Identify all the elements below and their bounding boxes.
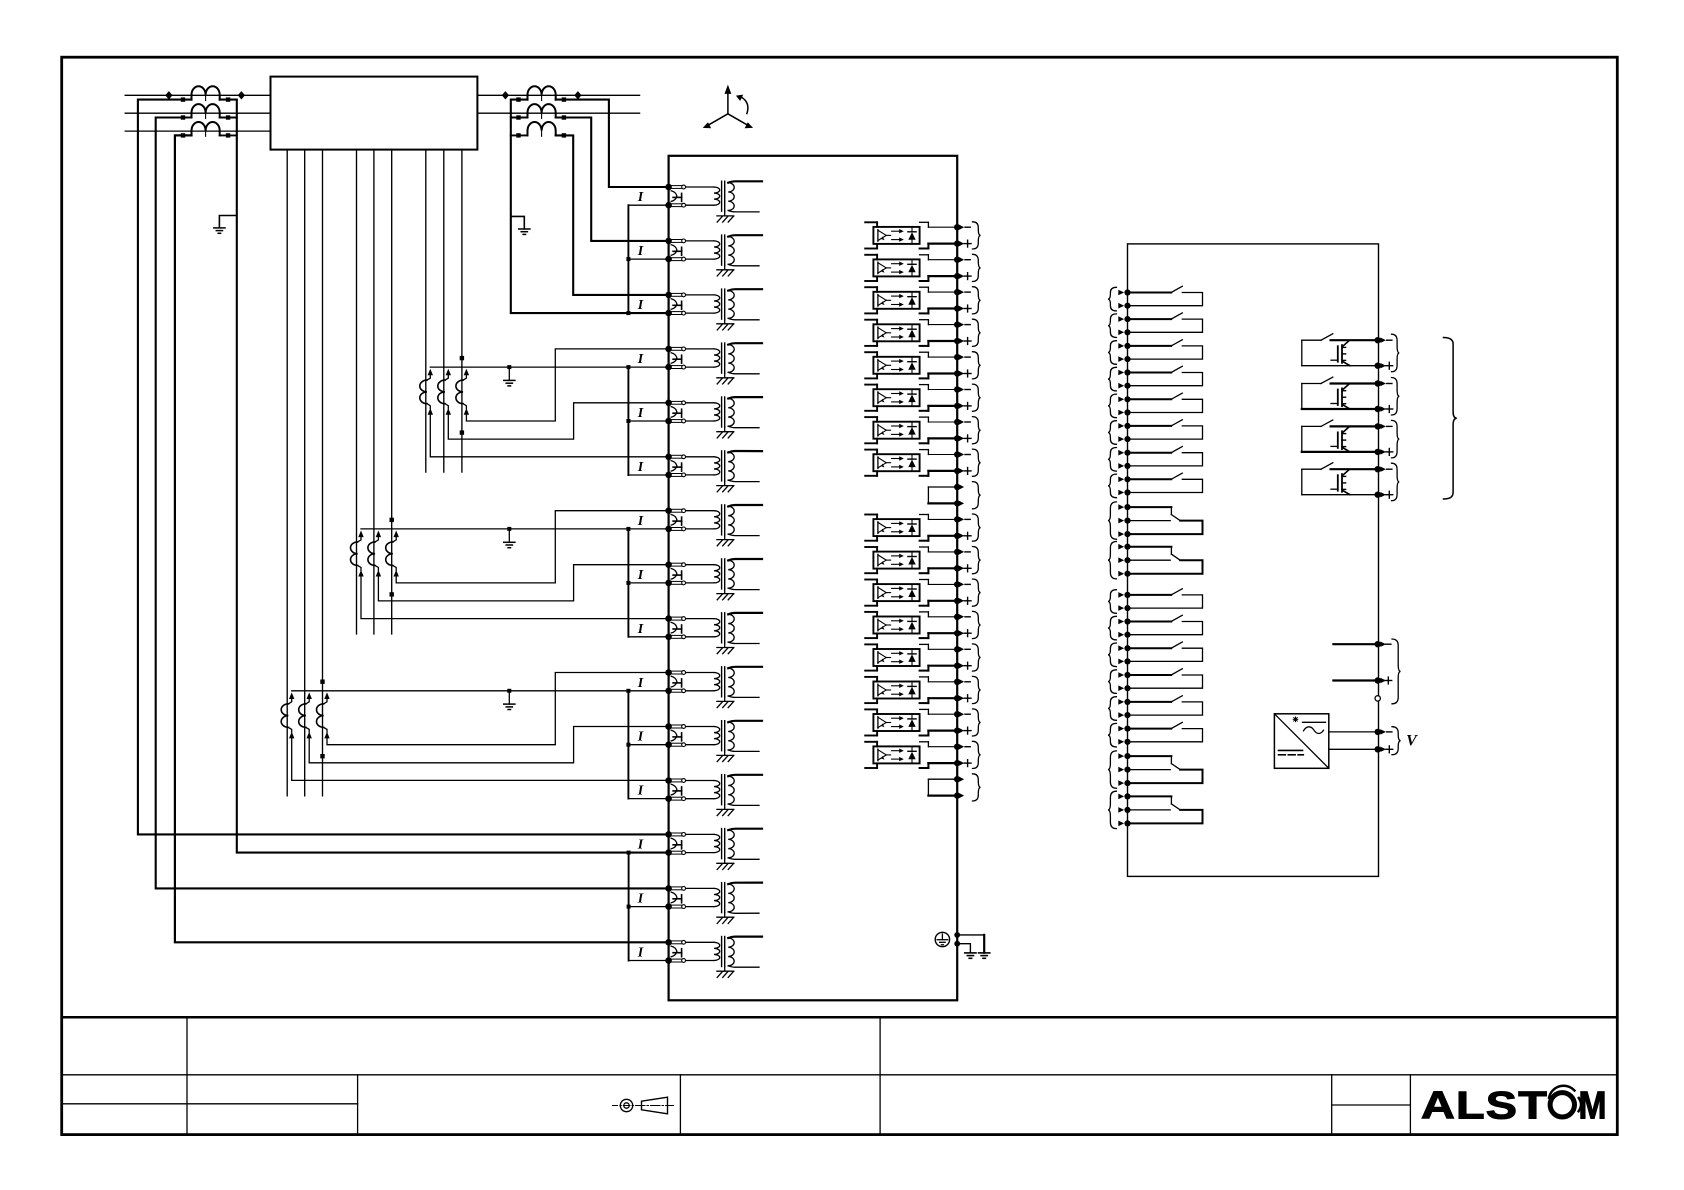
wire: opto 14 negative lead xyxy=(928,648,954,650)
terminal - (opto 14) xyxy=(954,646,960,652)
wire: transformer lead to middle CT set primary 3 xyxy=(391,150,393,634)
label - (opto 10) xyxy=(965,518,970,520)
junction (star link I4) xyxy=(626,365,630,369)
label - (opto 11) xyxy=(965,551,970,553)
wire: opto 5 negative lead xyxy=(928,356,954,358)
input transformer (channel I9) xyxy=(686,618,714,620)
svg-text:I: I xyxy=(637,676,644,691)
terminal + (opto 14) xyxy=(954,663,960,669)
label + (opto 8) xyxy=(964,470,971,472)
terminal - (opto 3) xyxy=(954,289,960,295)
polarity marker (left CT L1, right) xyxy=(238,91,245,99)
junction (I2 bottom link) xyxy=(626,257,630,261)
label + (output 4) xyxy=(1386,494,1393,496)
ground (earth link upper) xyxy=(979,952,990,954)
wire: opto 5 positive lead xyxy=(928,372,954,374)
wire: opto 17 positive lead xyxy=(928,762,954,764)
wire: opto 11 negative lead xyxy=(928,551,954,553)
label - (opto 6) xyxy=(965,389,970,391)
wire: watchdog output negative xyxy=(1333,643,1374,645)
label - (opto 17) xyxy=(965,746,970,748)
svg-text:I: I xyxy=(637,892,644,907)
terminal - (opto 10) xyxy=(954,516,960,522)
wire: opto 6 negative lead xyxy=(928,389,954,391)
current transformer (right group, line L2) xyxy=(528,104,556,117)
wire: opto 7 negative lead xyxy=(928,421,954,423)
current input channel I4 terminals xyxy=(665,346,672,353)
input transformer (channel I2) xyxy=(686,240,714,242)
input transformer (channel I11) xyxy=(686,726,714,728)
terminal + (opto 13) xyxy=(954,630,960,636)
optocoupler input 12 xyxy=(865,579,877,581)
label + (opto 17) xyxy=(964,762,971,764)
wire: transformer lead to middle CT set primary 1 xyxy=(356,150,358,634)
junction (I8 bottom link) xyxy=(626,581,630,585)
label - (opto 12) xyxy=(965,583,970,585)
terminal pair brace (opto 4) xyxy=(973,319,981,346)
junction (I11 bottom link) xyxy=(626,743,630,747)
ground (CT set I10-I12 star point) xyxy=(508,691,510,704)
wire: opto 1 positive lead xyxy=(928,243,954,245)
wire: CT phase 1 secondary to channel I12 top xyxy=(292,737,669,781)
terminal - (opto 8) xyxy=(954,451,960,457)
first angle projection symbol xyxy=(620,1099,632,1111)
terminal - (opto 11) xyxy=(954,549,960,555)
wire: CT phase 1 secondary to channel I9 top xyxy=(361,575,669,619)
wire: right CT L2 secondary phase lead down to channel I2 xyxy=(556,118,669,241)
ground (channel I12 transformer screen) xyxy=(724,805,726,810)
optocoupler input 10 xyxy=(865,514,877,516)
wire: opto 12 positive lead xyxy=(928,600,954,602)
relay output contact 3 terminals xyxy=(1124,343,1130,349)
input transformer (channel I10) xyxy=(686,672,714,674)
input transformer (channel I8) xyxy=(686,564,714,566)
terminal - (opto 2) xyxy=(954,257,960,263)
terminal pair brace (output 1) xyxy=(1392,334,1400,372)
terminal pair brace (opto 9) xyxy=(973,482,981,509)
transistor Q4 (IGBT) xyxy=(1337,475,1339,491)
svg-text:I: I xyxy=(637,460,644,475)
input transformer (channel I12) xyxy=(686,780,714,782)
terminal pair brace (contact 7) xyxy=(1108,448,1116,472)
input transformer (channel I3) xyxy=(686,294,714,296)
wire: opto 16 negative lead xyxy=(928,713,954,715)
optocoupler input 17 xyxy=(865,741,877,743)
junction (earth link lower) xyxy=(954,941,960,947)
relay contact 7 (normally open) xyxy=(1131,452,1171,454)
title block revision cell line xyxy=(1332,1104,1411,1106)
svg-text:M: M xyxy=(1579,1085,1607,1128)
phase line L1 (right busbar section) xyxy=(477,94,639,96)
high speed output 3 (contact + IGBT) xyxy=(1301,426,1303,452)
terminal pair brace (contact 13) xyxy=(1108,643,1116,667)
terminal + (opto 12) xyxy=(954,598,960,604)
relay output contact 5 terminals xyxy=(1124,396,1130,402)
relay output contact 10 terminals (changeover) xyxy=(1124,544,1130,550)
wire: opto 4 negative lead xyxy=(928,324,954,326)
label - (opto 14) xyxy=(965,648,970,650)
optocoupler input 3 xyxy=(865,286,877,288)
current input channel I8 terminals xyxy=(665,561,672,568)
junction (earth link upper) xyxy=(954,932,960,938)
ground (channel I10 transformer screen) xyxy=(724,697,726,701)
ground (earth link lower) xyxy=(965,952,976,954)
wire: CT phase 1 secondary to channel I6 top xyxy=(430,413,668,457)
terminal pair brace (opto 11) xyxy=(973,547,981,574)
wire: right CT L2 secondary to star vertical xyxy=(511,117,528,119)
wire: opto 12 negative lead xyxy=(928,583,954,585)
label + (output 1) xyxy=(1386,365,1393,367)
terminal pair brace (opto 5) xyxy=(973,352,981,379)
title block verticals xyxy=(186,1017,188,1134)
terminal + (opto 7) xyxy=(954,435,960,441)
terminal pair brace (contact 16) xyxy=(1108,723,1116,747)
wire: right CT L3 secondary phase lead down to channel I3 xyxy=(556,135,669,295)
optocoupler input 4 xyxy=(865,319,877,321)
wire: CT phase 3 secondary to channel I4 top xyxy=(466,349,668,421)
wire: transformer lead to lower CT set primary 2 xyxy=(304,150,306,796)
current transformer (left group, line L3) xyxy=(192,122,220,135)
title block row separator xyxy=(62,1074,1618,1076)
terminal + (opto 2) xyxy=(954,273,960,279)
terminal pair brace (opto 14) xyxy=(973,644,981,671)
terminal pair brace (output 2) xyxy=(1392,378,1400,416)
input transformer (channel I1) xyxy=(686,186,714,188)
wire: link channel I1/I2/I3 bottom terminals xyxy=(628,204,668,206)
wire: opto 10 negative lead xyxy=(928,518,954,520)
terminal pair brace (opto 7) xyxy=(973,417,981,444)
ground (channel I15 transformer screen) xyxy=(724,967,726,972)
terminal - (watchdog) xyxy=(1375,641,1381,647)
terminal + (output 2) xyxy=(1375,406,1381,412)
current input channel I10 terminals xyxy=(665,669,672,676)
ground (channel I1 transformer screen) xyxy=(724,211,726,216)
relay output contact 12 terminals xyxy=(1124,618,1130,624)
title block sub-row line xyxy=(62,1103,358,1105)
input transformer (channel I14) xyxy=(686,887,714,889)
relay output contact 8 terminals xyxy=(1124,476,1130,482)
wire: right CT L1 secondary phase lead down to channel I1 xyxy=(556,100,669,187)
optocoupler input 11 xyxy=(865,546,877,548)
label - (opto 7) xyxy=(965,421,970,423)
label - (opto 13) xyxy=(965,616,970,618)
wire: link to channel I8 bottom xyxy=(628,582,668,584)
svg-text:I: I xyxy=(637,244,644,259)
terminal pair brace (opto 17) xyxy=(973,741,981,768)
junction (I14 bottom link) xyxy=(627,905,631,909)
label + (opto 5) xyxy=(964,373,971,375)
relay output contact 16 terminals xyxy=(1124,726,1130,732)
terminal + (opto 16) xyxy=(954,727,960,733)
terminal + (output 1) xyxy=(1375,363,1381,369)
terminal - (output 4) xyxy=(1375,466,1381,472)
label + (opto 12) xyxy=(964,600,971,602)
optocoupler input 14 xyxy=(865,643,877,645)
wire: star link I7-I9 bottoms xyxy=(627,529,629,637)
wire: link to channel I14 bottom terminal xyxy=(629,906,669,908)
terminal pair brace (opto 2) xyxy=(973,254,981,281)
wire: CT phase 2 secondary to channel I5 top xyxy=(448,403,668,439)
wire: transformer lead to upper CT set primary 1 xyxy=(425,150,427,473)
high speed output 4 (contact + IGBT) xyxy=(1301,469,1303,495)
terminal - (opto 5) xyxy=(954,354,960,360)
input transformer (channel I4) xyxy=(686,348,714,350)
CT secondary winding (set at channels I7-I9, phase 2) xyxy=(376,531,381,538)
current transformer (right group, line L3) xyxy=(528,122,556,135)
current transformer (left group, line L2) xyxy=(192,104,220,117)
terminal - (opto 17) xyxy=(954,744,960,750)
ground (right CT star point) xyxy=(511,216,525,228)
junction (I13 bottom link) xyxy=(627,851,631,855)
optocoupler input 1 xyxy=(865,221,877,223)
terminal pair brace (contact 3) xyxy=(1108,341,1116,365)
current input channel I5 terminals xyxy=(665,400,672,407)
optocoupler input 2 xyxy=(865,254,877,256)
terminal - (opto 15) xyxy=(954,679,960,685)
ground (channel I8 transformer screen) xyxy=(724,589,726,594)
wire: left CT L3 secondary to star vertical xyxy=(220,134,237,136)
relay contact 9 (changeover) xyxy=(1131,506,1172,508)
CT secondary winding (set at channels I10-I12, phase 1) xyxy=(289,692,294,699)
relay output contact 4 terminals xyxy=(1124,369,1130,375)
ground (channel I5 transformer screen) xyxy=(724,427,726,432)
ground (left CT star point) xyxy=(219,216,236,228)
wire: opto 13 positive lead xyxy=(928,632,954,634)
terminal pair brace (contact 2) xyxy=(1108,314,1116,338)
polarity marker (right CT L1, right) xyxy=(574,91,581,99)
ground (channel I7 transformer screen) xyxy=(724,535,726,540)
CT secondary winding (set at channels I4-I6, phase 3) xyxy=(464,369,469,376)
relay output contact 2 terminals xyxy=(1124,316,1130,322)
current input channel I9 terminals xyxy=(665,615,672,622)
terminal pair brace (contact 14) xyxy=(1108,670,1116,694)
current input channel I13 terminals xyxy=(665,831,672,838)
terminal + (auxiliary supply) xyxy=(1375,746,1381,752)
brace (auxiliary supply V) xyxy=(1392,727,1401,755)
terminal + (opto 11) xyxy=(954,565,960,571)
relay contact 17 (changeover) xyxy=(1131,755,1172,757)
wire: transformer lead to lower CT set primary 3 xyxy=(322,150,324,796)
polarity marker (left CT L1, left) xyxy=(165,91,172,99)
label - (opto 8) xyxy=(965,454,970,456)
wire: opto 3 negative lead xyxy=(928,291,954,293)
wire: right CT L3 secondary to star vertical xyxy=(511,134,528,136)
relay output contact 14 terminals xyxy=(1124,672,1130,678)
wire: CT phase 2 secondary to channel I8 top xyxy=(378,565,668,601)
wire: opto 8 negative lead xyxy=(928,454,954,456)
ground (CT set I7-I9 star point) xyxy=(508,529,510,542)
label - (output 3) xyxy=(1387,425,1392,427)
terminal - (opto 6) xyxy=(954,386,960,392)
transistor Q1 (IGBT) xyxy=(1337,346,1339,362)
junction (star link I7) xyxy=(626,527,630,531)
terminal brace (contact 10) xyxy=(1108,542,1116,579)
terminal + (opto 8) xyxy=(954,468,960,474)
label + (opto 1) xyxy=(964,243,971,245)
terminal brace (contact 18) xyxy=(1108,791,1116,828)
svg-text:I: I xyxy=(637,946,644,961)
primary polarity marker (I7 set) xyxy=(390,518,394,522)
label - (opto 4) xyxy=(965,324,970,326)
phase line L3 (left busbar section) xyxy=(125,130,270,132)
wire: CT star point common to channel I10 bottom xyxy=(292,690,669,692)
svg-text:ALST: ALST xyxy=(1421,1085,1548,1128)
wire: transformer lead to lower CT set primary 1 xyxy=(286,150,288,796)
relay contact 15 (normally open) xyxy=(1131,701,1171,703)
terminal pair brace (contact 12) xyxy=(1108,616,1116,640)
relay contact 18 (changeover) xyxy=(1131,795,1172,797)
wire: power supply output negative xyxy=(1329,731,1375,733)
rotating machine phasor symbol xyxy=(727,93,729,114)
ground (channel I14 transformer screen) xyxy=(724,913,726,918)
svg-text:I: I xyxy=(637,298,644,313)
terminal + (opto 17) xyxy=(954,760,960,766)
relay contact 2 (normally open) xyxy=(1131,318,1171,320)
wire: watchdog output positive xyxy=(1333,679,1374,681)
wire: left CT L2 secondary to star vertical xyxy=(220,117,237,119)
terminal + (opto 5) xyxy=(954,370,960,376)
wire: opto 17 negative lead xyxy=(928,746,954,748)
wire: opto 6 positive lead xyxy=(928,405,954,407)
terminal + (opto 10) xyxy=(954,533,960,539)
terminal pair brace (opto 16) xyxy=(973,709,981,736)
current transformer (right group, line L1) xyxy=(528,86,556,99)
wire: transformer lead to middle CT set primary 2 xyxy=(373,150,375,634)
current input channel I7 terminals xyxy=(665,507,672,514)
current input channel I15 terminals xyxy=(665,939,672,946)
input transformer (channel I13) xyxy=(686,833,714,835)
label - (opto 3) xyxy=(965,291,970,293)
relay case (main box) xyxy=(669,156,958,1001)
optocoupler input 7 xyxy=(865,416,877,418)
optocoupler input 6 xyxy=(865,384,877,386)
wire: link to channel I5 bottom xyxy=(628,420,668,422)
relay output contact 6 terminals xyxy=(1124,423,1130,429)
polarity marker (right CT L1, left) xyxy=(502,91,509,99)
terminal pair brace (contact 5) xyxy=(1108,394,1116,418)
relay contact 10 (changeover) xyxy=(1131,546,1172,548)
wire: star link I10-I12 bottoms xyxy=(627,691,629,799)
terminal - (opto 13) xyxy=(954,614,960,620)
terminal - (opto 7) xyxy=(954,419,960,425)
current input channel I12 terminals xyxy=(665,777,672,784)
wire: left CT L3 secondary phase lead down to channel I15 xyxy=(175,135,669,942)
CT secondary winding (set at channels I4-I6, phase 1) xyxy=(428,369,433,376)
group brace (high speed outputs) xyxy=(1444,338,1457,500)
wire: opto 1 negative lead xyxy=(928,226,954,228)
label + (opto 2) xyxy=(964,275,971,277)
wire: opto 4 positive lead xyxy=(928,340,954,342)
wire: CT star point common to channel I7 bottom xyxy=(361,528,669,530)
input transformer (channel I15) xyxy=(686,941,714,943)
transistor Q2 (IGBT) xyxy=(1337,390,1339,406)
relay output contact 15 terminals xyxy=(1124,699,1130,705)
wire: star link I4-I6 bottoms xyxy=(627,367,629,475)
wire: left CT L2 secondary phase lead down to channel I14 xyxy=(156,118,669,889)
CT secondary winding (set at channels I10-I12, phase 2) xyxy=(307,692,312,699)
wire: opto 7 positive lead xyxy=(928,437,954,439)
wire: opto 16 positive lead xyxy=(928,729,954,731)
svg-text:V: V xyxy=(1406,733,1418,750)
label + (output 3) xyxy=(1386,451,1393,453)
terminal - (output 3) xyxy=(1375,423,1381,429)
phase line L1 (left busbar section) xyxy=(125,94,270,96)
power supply unit U1 (AC/DC converter) xyxy=(1274,714,1328,769)
terminal pair brace (opto 10) xyxy=(973,514,981,541)
terminal - (opto 16) xyxy=(954,711,960,717)
wire: opto 11 positive lead xyxy=(928,567,954,569)
terminal (case earth, open circle) xyxy=(1375,696,1380,701)
terminal pair brace (opto 15) xyxy=(973,676,981,703)
svg-text:I: I xyxy=(637,784,644,799)
wire: left CT L1 secondary phase lead down to channel I13 xyxy=(138,100,669,835)
relay contact 13 (normally open) xyxy=(1131,647,1171,649)
terminal - (output 1) xyxy=(1375,337,1381,343)
relay contact 12 (normally open) xyxy=(1131,621,1171,623)
wire: CT phase 2 secondary to channel I11 top xyxy=(309,727,668,763)
current input channel I11 terminals xyxy=(665,723,672,730)
title block top line xyxy=(62,1016,1618,1019)
terminal + (opto 1) xyxy=(954,240,960,246)
current input channel I2 terminals xyxy=(665,238,672,245)
wire: transformer lead to upper CT set primary 2 xyxy=(443,150,445,473)
wire: opto 8 positive lead xyxy=(928,470,954,472)
junction (I3 bottom link) xyxy=(626,311,630,315)
label - (opto 1) xyxy=(965,226,970,228)
output relay case (right box) xyxy=(1128,244,1379,877)
terminal pair brace (contact 6) xyxy=(1108,421,1116,445)
terminal - (opto 9) xyxy=(954,484,960,490)
terminal pair brace (output 3) xyxy=(1392,420,1400,458)
terminal + (opto 18) xyxy=(954,792,960,798)
label + (opto 3) xyxy=(964,308,971,310)
terminal pair brace (contact 1) xyxy=(1108,287,1116,311)
terminal pair brace (opto 6) xyxy=(973,384,981,411)
label + (watchdog) xyxy=(1385,680,1392,682)
wire: link to channel I2 bottom terminal xyxy=(628,258,668,260)
terminal - (opto 1) xyxy=(954,224,960,230)
optocoupler input 8 xyxy=(865,449,877,451)
optocoupler input 13 xyxy=(865,611,877,613)
ground (channel I3 transformer screen) xyxy=(724,319,726,324)
group brace (watchdog outputs) xyxy=(1392,639,1401,704)
terminal + (output 4) xyxy=(1375,492,1381,498)
terminal pair brace (contact 11) xyxy=(1108,590,1116,614)
svg-text:I: I xyxy=(637,622,644,637)
wire: CT phase 3 secondary to channel I7 top xyxy=(396,511,668,583)
current input channel I3 terminals xyxy=(665,292,672,299)
label + (opto 16) xyxy=(964,730,971,732)
optocoupler input 15 xyxy=(865,676,877,678)
terminal pair brace (opto 3) xyxy=(973,287,981,314)
relay contact 6 (normally open) xyxy=(1131,425,1171,427)
relay contact 5 (normally open) xyxy=(1131,398,1171,400)
relay contact 3 (normally open) xyxy=(1131,345,1171,347)
terminal + (opto 6) xyxy=(954,403,960,409)
CT secondary winding (set at channels I7-I9, phase 1) xyxy=(358,531,363,538)
terminal - (auxiliary supply) xyxy=(1375,729,1381,735)
current input channel I14 terminals xyxy=(665,885,672,892)
terminal + (opto 15) xyxy=(954,695,960,701)
terminal - (opto 12) xyxy=(954,581,960,587)
terminal brace (contact 9) xyxy=(1108,502,1116,539)
relay output contact 13 terminals xyxy=(1124,645,1130,651)
terminal pair brace (opto 18) xyxy=(973,774,981,801)
relay output contact 11 terminals xyxy=(1124,592,1130,598)
current input channel I6 terminals xyxy=(665,454,672,461)
terminal - (opto 4) xyxy=(954,321,960,327)
protective earth terminal (case) xyxy=(935,932,949,946)
